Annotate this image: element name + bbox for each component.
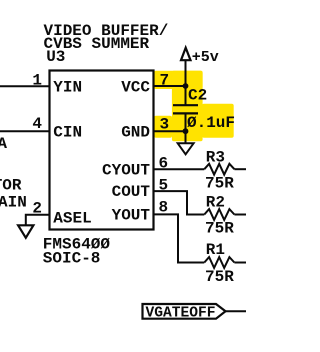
wire R2 right [234,214,246,216]
svg-text:ASEL: ASEL [53,210,91,228]
svg-text:AIN: AIN [0,194,27,212]
wire pin 3 GND [154,130,186,132]
svg-text:R1: R1 [206,241,225,259]
capacitor C2 plates [173,104,198,106]
capacitor top lead [185,86,187,105]
wire from VGATEOFF [226,310,247,312]
svg-text:75R: 75R [205,220,234,238]
highlight over 0.1uF value [202,104,234,138]
wire pin 4 CIN [0,130,50,132]
ground stub below C2 [185,131,187,143]
svg-text:SOIC-8: SOIC-8 [43,249,101,267]
svg-text:A: A [0,135,7,153]
svg-text:YOUT: YOUT [112,207,151,225]
resistor R2 [204,209,234,220]
wire R1 right [234,262,246,264]
svg-text:75R: 75R [205,174,234,192]
IC U3 body [50,71,154,230]
svg-text:75R: 75R [205,268,234,286]
wire pin 5 COUT to R2 [154,191,205,214]
svg-text:VCC: VCC [121,79,150,97]
svg-text:U3: U3 [46,48,65,66]
resistor R3 [204,164,234,175]
svg-text:CYOUT: CYOUT [102,161,150,179]
svg-text:TOR: TOR [0,177,22,195]
junction dot pin 7 [183,83,189,89]
svg-text:COUT: COUT [112,183,151,201]
svg-text:GND: GND [121,124,150,142]
svg-text:VGATEOFF: VGATEOFF [146,305,216,321]
wire pin 8 YOUT to R1 [154,214,205,262]
junction dot pin 3 [183,128,189,134]
wire pin 6 CYOUT to R3 [154,168,205,170]
highlight over pin 3 [154,116,172,138]
svg-text:C2: C2 [188,86,207,104]
wire R3 right [234,168,246,170]
svg-text:YIN: YIN [53,79,82,97]
ground below C2 [178,143,194,154]
svg-text:CIN: CIN [53,124,82,142]
capacitor bottom lead [185,113,187,131]
wire pin 1 YIN [0,85,50,87]
+5v arrow [181,48,191,61]
resistor R1 [204,257,234,268]
svg-text:+5v: +5v [192,49,219,66]
highlight over pin 7 [154,71,203,89]
wire pin 7 VCC [154,85,186,87]
svg-text:Ø.1uF: Ø.1uF [187,114,235,132]
ground at ASEL [18,225,33,238]
svg-text:R2: R2 [206,194,225,212]
highlight over capacitor column [172,71,203,141]
svg-text:R3: R3 [206,148,225,166]
wire pin 2 ASEL [26,215,50,225]
+5v supply stub [185,60,187,86]
net flag VGATEOFF [143,304,226,319]
